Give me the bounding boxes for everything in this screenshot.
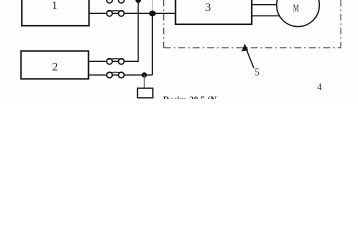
junction dot on wire B: [149, 11, 156, 17]
contact B bridge bar: [107, 10, 124, 13]
small box (element at bottom, mostly cut off): [138, 88, 153, 98]
box 1 (control block 1, top cut off): [22, 0, 89, 26]
wire V2 (vertical from wire B junction down to wire D): [151, 13, 153, 75]
enclosure dash-dot boundary left side: [163, 0, 165, 48]
contact B2: [118, 11, 124, 17]
wire V1 (vertical from wire A down to wire C): [137, 0, 139, 61]
contact D bridge bar: [107, 71, 124, 74]
svg-text:5: 5: [255, 68, 260, 79]
faint scan smear above wire B junction: [151, 0, 153, 11]
contact D2: [118, 72, 124, 78]
box 2 (control block 2): [21, 51, 89, 79]
wire A (top row from box 1): [89, 0, 138, 1]
motor M (circle, top cut off): [277, 0, 320, 27]
contact A1: [107, 0, 113, 3]
wire from box 3 to motor (lower): [252, 15, 282, 17]
svg-text:Resim 20.5 (N: Resim 20.5 (N: [163, 95, 217, 99]
svg-text:1: 1: [52, 0, 58, 12]
wire C (first row from box 2): [89, 60, 139, 62]
contact D1: [107, 72, 113, 78]
contact B1: [107, 11, 113, 17]
svg-text:2: 2: [52, 60, 58, 74]
svg-text:4: 4: [317, 82, 322, 92]
svg-text:3: 3: [205, 0, 211, 14]
enclosure dash-dot boundary right side: [340, 0, 342, 48]
contact C2: [118, 59, 124, 65]
enclosure dash-dot boundary bottom side: [164, 47, 341, 49]
junction dot on wire D: [142, 72, 147, 77]
svg-text:M: M: [293, 4, 299, 15]
contact C1: [107, 59, 113, 65]
contact C bridge bar: [107, 58, 124, 61]
wire stem from wire D junction to element 4 box: [143, 75, 145, 88]
wire D (second row from box 2): [89, 74, 153, 76]
junction dot on wire A: [135, 0, 141, 3]
wire from box 3 to motor (upper): [252, 4, 280, 6]
contact A2: [118, 0, 124, 3]
box 3 (control block 3, top cut off): [176, 0, 252, 24]
callout arrow to enclosure: [247, 51, 254, 69]
wire B (second row from box 1 into box 3): [89, 12, 176, 14]
